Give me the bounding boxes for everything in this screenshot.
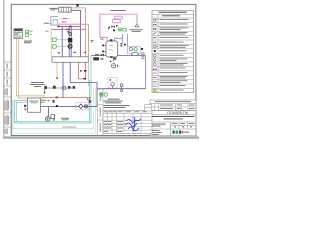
from well label bbox=[61, 118, 69, 120]
valve on purple port bbox=[120, 43, 123, 46]
connector vertical x=97 bbox=[96, 89, 98, 107]
left strip rotated text smudges bbox=[5, 64, 9, 135]
manifold label bbox=[50, 8, 59, 11]
gray stub from loop bbox=[58, 18, 70, 20]
right riser purple bbox=[145, 56, 147, 89]
valve in red loop bbox=[80, 70, 82, 72]
page background bbox=[0, 0, 200, 140]
main drawing frame bbox=[11, 4, 196, 135]
legend text smudges bbox=[160, 19, 189, 90]
table cell text smudges bbox=[104, 111, 147, 131]
small valves below tank bbox=[101, 58, 104, 61]
title block right bbox=[150, 111, 196, 136]
signature rows bottom left of right block bbox=[152, 130, 162, 135]
pink line to riser bbox=[59, 24, 89, 56]
green sensor icons near thermostat bbox=[26, 30, 33, 36]
table header texts above bbox=[104, 105, 130, 108]
return pipe blue from manifold bbox=[71, 10, 80, 56]
fan coil magenta loop bbox=[100, 14, 137, 37]
revision checkbox stack bbox=[145, 105, 152, 111]
red return line lower bbox=[51, 28, 85, 30]
air vent label bbox=[130, 29, 143, 32]
blue horizontal from loop bbox=[58, 26, 81, 28]
expansion loop (spiral) bbox=[51, 17, 59, 25]
scheme name cell bbox=[152, 123, 166, 126]
pump station box bbox=[28, 98, 41, 112]
tank top cap bbox=[110, 39, 113, 41]
green symbols at brine corner bbox=[100, 93, 108, 96]
room wall top stub bbox=[15, 99, 28, 101]
pink left riser bbox=[50, 29, 52, 56]
wellhead fittings row bbox=[44, 86, 76, 90]
room wall (teal) right segment bbox=[15, 56, 91, 123]
page bottom shadow bbox=[3, 136, 199, 138]
dark square on well line bbox=[56, 105, 58, 107]
blue riser to lower line bbox=[62, 62, 64, 88]
node dot and squares right of pump group bbox=[141, 48, 143, 50]
green fill valves near pump station bbox=[41, 100, 50, 103]
heat pump unit box bbox=[52, 57, 88, 63]
circulation pump (dark) bbox=[68, 38, 72, 42]
pump group box on heating main bbox=[128, 46, 141, 55]
pump column purple pair bbox=[69, 27, 71, 57]
legend col header text bbox=[162, 14, 180, 17]
supply pipe pink from manifold bbox=[71, 8, 85, 57]
small label right of sensors bbox=[45, 30, 49, 33]
svg-text:ГЛЭ0525-ТМ: ГЛЭ0525-ТМ bbox=[167, 111, 188, 115]
red line end symbol bbox=[87, 98, 89, 100]
paper left edge line bbox=[2, 0, 5, 137]
valves on red line bbox=[66, 28, 68, 30]
room wall bottom bbox=[15, 120, 91, 122]
well text block bbox=[30, 82, 45, 87]
valve pair below brine line bbox=[120, 84, 123, 92]
red node on well line bbox=[56, 96, 58, 98]
valves on pump column bbox=[69, 32, 72, 35]
tank left ports bbox=[102, 45, 106, 53]
red loop below unit bbox=[79, 62, 86, 79]
company logo colored bbox=[172, 131, 189, 134]
thermostat box bbox=[14, 29, 22, 39]
specification table top rows bbox=[150, 100, 196, 111]
node squares on blue line bbox=[58, 26, 60, 28]
pink stub right of loop bbox=[87, 62, 89, 86]
supply label red bbox=[63, 17, 67, 20]
thermometer at tank right bbox=[113, 57, 116, 61]
green valve in chain bbox=[118, 28, 121, 31]
bottom-left signature table bbox=[103, 110, 152, 133]
green label right of risers bbox=[91, 40, 94, 41]
stage/sheet headers bbox=[172, 123, 195, 127]
room wall left bbox=[14, 100, 16, 123]
drop from fittings bbox=[62, 88, 64, 98]
legend header text bbox=[159, 12, 187, 13]
legend table bbox=[152, 11, 194, 93]
tank top-right purple port bbox=[115, 34, 123, 43]
fan coil label bbox=[110, 9, 125, 12]
blue signatures bbox=[125, 117, 141, 131]
navy well line (y=106.6) bbox=[41, 106, 97, 108]
node B marker bbox=[76, 4, 78, 6]
note text block (примечание) bbox=[104, 99, 123, 104]
buffer tank bbox=[106, 41, 118, 57]
borehole pump group bbox=[45, 107, 54, 122]
magenta link to tank bbox=[100, 37, 107, 41]
labels above unit bbox=[57, 52, 86, 54]
drop arrow from wellhead bbox=[44, 88, 46, 94]
heating main line (purple, y=55.5) bbox=[91, 55, 146, 57]
valve chain under fan coil bbox=[108, 25, 118, 32]
manometer bbox=[110, 61, 118, 68]
black dot node bbox=[53, 100, 55, 103]
thermostat cable (tan pair) bbox=[16, 38, 45, 98]
valves under-left of tank bbox=[95, 53, 103, 56]
manifold (распределитель) bbox=[59, 7, 71, 12]
fan coil heat exchanger bbox=[113, 16, 123, 23]
left title strip column bbox=[4, 4, 11, 136]
node marker left of pump station bbox=[24, 105, 26, 107]
node labels small dark bbox=[84, 70, 86, 72]
legend row lines bbox=[152, 22, 194, 88]
basement label bbox=[63, 126, 77, 129]
brine main line (navy, y=88.7) bbox=[97, 88, 146, 90]
thermostat label text bbox=[24, 41, 32, 44]
blue drop from unit to brine line bbox=[70, 62, 97, 88]
red well water line (y=97.6) bbox=[41, 97, 91, 99]
corner valve on magenta bbox=[101, 37, 103, 39]
dark pump under tank bbox=[93, 57, 99, 60]
rotated side column of title block bbox=[97, 89, 103, 136]
building outline (outer teal) bbox=[12, 88, 95, 133]
expansion vessel group box bbox=[108, 78, 117, 89]
green thermometer icons left of pump column bbox=[53, 38, 68, 48]
pump circle bbox=[68, 44, 73, 49]
check valve diamond on well line bbox=[76, 100, 91, 110]
legend symbols column bbox=[153, 19, 158, 92]
blue riser left bbox=[61, 27, 63, 57]
air vent triangle bbox=[135, 24, 139, 27]
address block text bbox=[151, 116, 194, 119]
pink drain stub below unit bbox=[56, 62, 58, 78]
room label with leader bbox=[44, 22, 52, 25]
return label red bbox=[62, 21, 67, 24]
